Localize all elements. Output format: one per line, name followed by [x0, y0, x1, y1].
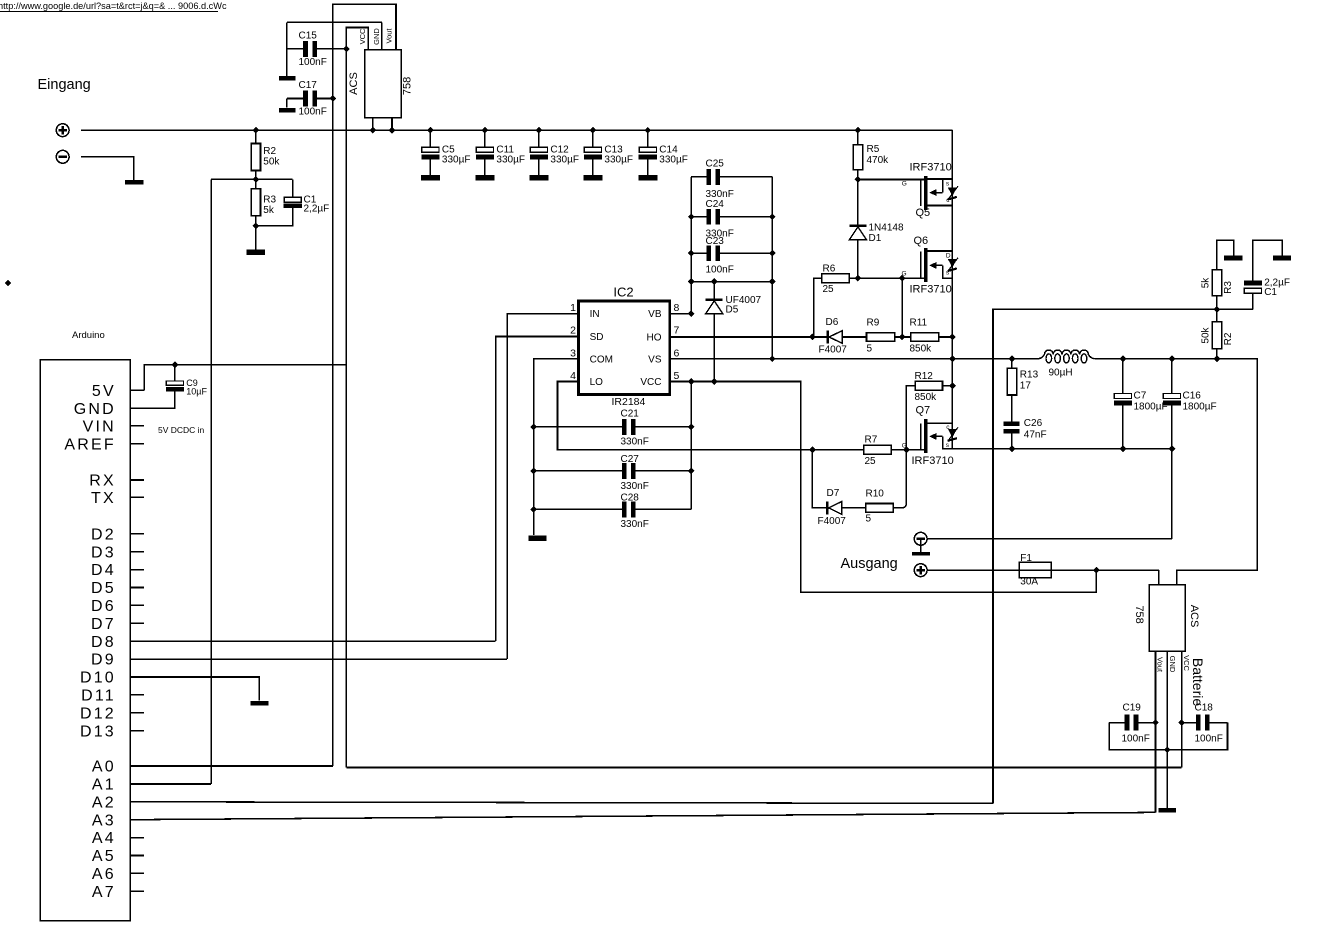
svg-text:100nF: 100nF: [1195, 734, 1223, 745]
svg-text:330µF: 330µF: [550, 155, 579, 166]
svg-text:100nF: 100nF: [299, 57, 327, 68]
svg-text:D1: D1: [869, 233, 882, 244]
junction F1/VCC riser: [1093, 567, 1100, 574]
wire: Vout column to A3: [1155, 651, 1157, 812]
ground C13: [583, 175, 602, 181]
svg-text:C15: C15: [299, 31, 318, 42]
svg-text:Arduino: Arduino: [72, 330, 105, 341]
svg-text:D8: D8: [91, 634, 116, 651]
svg-text:RX: RX: [89, 473, 116, 490]
svg-text:8: 8: [674, 302, 680, 314]
svg-text:Vout: Vout: [384, 28, 393, 44]
svg-text:330µF: 330µF: [496, 155, 525, 166]
svg-text:F1: F1: [1020, 553, 1032, 564]
junction LO/D7: [809, 446, 816, 453]
svg-text:R7: R7: [865, 435, 878, 446]
junction 5V/C9: [172, 361, 179, 368]
capacitor C11 330uF: [484, 130, 486, 147]
capacitor C14 330uF: [647, 130, 649, 147]
wire: ACS bottom pins to rail: [372, 118, 374, 131]
svg-text:R11: R11: [910, 318, 928, 329]
svg-text:4: 4: [570, 370, 576, 382]
capacitor C1 2,2uF (output divider): [1244, 281, 1262, 286]
svg-text:A7: A7: [92, 884, 116, 901]
resistor R7 25: [864, 445, 891, 454]
junction GND/caps: [1164, 746, 1171, 753]
svg-text:1: 1: [570, 302, 576, 314]
svg-text:COM: COM: [590, 354, 613, 365]
svg-text:C25: C25: [706, 159, 725, 170]
svg-text:R6: R6: [823, 264, 836, 275]
ground R3 output: [1224, 256, 1242, 261]
svg-text:90µH: 90µH: [1049, 368, 1073, 379]
wire: VS row to output filter: [670, 358, 1038, 360]
capacitor C24 330nF: [691, 216, 707, 218]
svg-text:SD: SD: [590, 332, 604, 343]
svg-text:850k: 850k: [915, 392, 938, 403]
ground output terminal: [920, 540, 922, 553]
svg-text:GND: GND: [372, 28, 381, 45]
diode D6 F4007: [826, 331, 829, 344]
svg-text:25: 25: [823, 284, 835, 295]
resistor R2 50k (output divider): [1214, 355, 1221, 362]
wire: COM to ground column: [534, 359, 579, 535]
ground D10: [251, 701, 269, 706]
diode D1 1N4148: [857, 180, 859, 226]
svg-text:D6: D6: [91, 598, 116, 615]
svg-text:IRF3710: IRF3710: [912, 455, 954, 467]
svg-text:R10: R10: [866, 489, 885, 500]
wire: divider sense down to A1: [210, 179, 212, 784]
svg-text:25: 25: [865, 456, 877, 467]
wire: SD to D8: [496, 337, 579, 642]
wire: bootstrap stack left column (VB): [690, 177, 692, 314]
svg-text:VCC: VCC: [640, 377, 661, 388]
capacitor C26 47nF: [1004, 422, 1020, 426]
svg-text:330µF: 330µF: [604, 155, 633, 166]
resistor R12 850k: [906, 386, 915, 450]
svg-text:LO: LO: [590, 377, 604, 388]
svg-text:G: G: [902, 181, 907, 188]
wire: output minus row: [928, 538, 1172, 540]
svg-text:Ausgang: Ausgang: [841, 556, 898, 572]
resistor R11 850k: [911, 333, 939, 342]
ground input minus: [125, 180, 143, 185]
svg-text:HO: HO: [647, 332, 662, 343]
IC ACS758 current sensor (input): [365, 50, 401, 118]
svg-text:5: 5: [674, 370, 680, 382]
svg-text:Eingang: Eingang: [38, 77, 91, 93]
wire: pgnd down to output minus: [1171, 449, 1173, 539]
svg-text:330µF: 330µF: [659, 155, 688, 166]
svg-text:47nF: 47nF: [1024, 430, 1047, 441]
resistor R13 17: [1011, 359, 1013, 369]
svg-text:D2: D2: [91, 526, 116, 543]
node: input - terminal: [56, 150, 69, 163]
junction rail/C5: [427, 127, 434, 134]
svg-text:Q7: Q7: [916, 405, 931, 417]
svg-text:C24: C24: [706, 199, 725, 210]
svg-text:1800µF: 1800µF: [1183, 402, 1217, 413]
capacitor C17 100nF: [287, 98, 304, 100]
wire: R3 top to ground: [1217, 240, 1234, 269]
wire: +input rail: [81, 129, 952, 131]
svg-text:100nF: 100nF: [706, 265, 734, 276]
wire: bootstrap stack right column (VS): [771, 177, 773, 359]
capacitor C28 330nF: [534, 508, 624, 510]
svg-text:R2: R2: [1223, 332, 1234, 345]
resistor R10 5: [866, 504, 894, 513]
svg-text:D9: D9: [91, 652, 116, 669]
capacitor C25 330nF: [691, 176, 707, 178]
svg-text:10µF: 10µF: [186, 387, 207, 397]
svg-text:Vout: Vout: [1155, 657, 1164, 673]
diode D7 F4007: [812, 450, 827, 508]
svg-text:100nF: 100nF: [299, 107, 327, 118]
svg-text:D10: D10: [80, 670, 116, 687]
svg-text:5V DCDC in: 5V DCDC in: [158, 425, 205, 435]
svg-text:C16: C16: [1183, 391, 1202, 402]
svg-text:IC2: IC2: [613, 285, 633, 300]
node: R3 bottom junction: [252, 223, 259, 230]
capacitor C16 1800uF: [1171, 359, 1173, 394]
node: input divider midpoint: [252, 176, 259, 183]
svg-text:D11: D11: [81, 688, 116, 705]
svg-text:C28: C28: [621, 493, 640, 504]
wire: GND column: [1166, 651, 1168, 808]
svg-text:330µF: 330µF: [442, 155, 471, 166]
capacitor C1 2,2uF (input divider): [292, 179, 294, 197]
wire: VCC column: [1181, 651, 1183, 767]
svg-text:R3: R3: [263, 195, 276, 206]
capacitor C5 330uF: [429, 130, 431, 147]
svg-text:850k: 850k: [910, 344, 933, 355]
wire: 5V pin to VCC column: [144, 365, 346, 391]
resistor R5 470k: [857, 130, 859, 145]
svg-text:VIN: VIN: [83, 418, 116, 435]
inductor 90uH: [1038, 350, 1095, 359]
resistor R9 5: [867, 333, 895, 342]
junction C17/Vout loop: [330, 95, 337, 102]
wire: A3 row: [130, 812, 1156, 819]
svg-text:D7: D7: [91, 616, 116, 633]
svg-text:GND: GND: [1168, 656, 1177, 673]
svg-text:D12: D12: [80, 705, 116, 722]
junction VS/R13: [1009, 355, 1016, 362]
wire: VCC cap column: [690, 382, 692, 510]
svg-text:5: 5: [867, 344, 873, 355]
svg-text:C7: C7: [1134, 391, 1147, 402]
wire: feedback row to A2 column: [993, 309, 1253, 803]
svg-text:VB: VB: [648, 309, 662, 320]
svg-text:50k: 50k: [263, 157, 280, 168]
svg-text:R2: R2: [263, 146, 276, 157]
svg-text:30A: 30A: [1020, 577, 1038, 588]
junction rail/C14: [644, 127, 651, 134]
ground C17: [279, 108, 296, 113]
svg-text:Q5: Q5: [916, 207, 931, 219]
svg-text:GND: GND: [74, 401, 116, 418]
junction rail/C13: [590, 127, 597, 134]
junction rail/R5: [855, 127, 862, 134]
svg-text:R12: R12: [915, 371, 934, 382]
svg-text:3: 3: [570, 348, 576, 360]
wire: D8 row: [130, 640, 496, 642]
svg-text:IRF3710: IRF3710: [910, 162, 952, 174]
svg-text:ACS: ACS: [1188, 605, 1200, 628]
svg-text:IRF3710: IRF3710: [910, 284, 952, 296]
capacitor C13 330uF: [592, 130, 594, 147]
ground C12: [529, 175, 548, 181]
capacitor C15 100nF: [287, 48, 304, 50]
resistor R2 50k (input divider): [255, 130, 257, 143]
junction rail/R2: [252, 127, 259, 134]
resistor R3 5k (input divider): [251, 189, 260, 216]
svg-text:G: G: [902, 271, 907, 278]
node: Q5 gate node: [855, 176, 862, 183]
wire: gate row Q6: [858, 277, 924, 279]
ground C5: [421, 175, 440, 181]
ground C11: [475, 175, 494, 181]
ground C15: [279, 76, 296, 81]
svg-text:2,2µF: 2,2µF: [304, 204, 330, 215]
svg-text:A6: A6: [92, 866, 116, 883]
node: Q6 gate node: [855, 275, 862, 282]
capacitor C19 100nF: [1109, 722, 1124, 724]
svg-text:C17: C17: [299, 80, 318, 91]
junction rail/C12: [536, 127, 543, 134]
capacitor C23 100nF: [691, 252, 707, 254]
svg-text:758: 758: [1133, 605, 1145, 623]
svg-text:IR2184: IR2184: [612, 396, 646, 408]
wire: R10 up to Q7 gate: [893, 450, 906, 508]
svg-text:758: 758: [402, 77, 414, 95]
wire: A1 row: [130, 783, 211, 785]
wire: ACS Vout loop to A0: [333, 4, 396, 766]
svg-text:R3: R3: [1223, 281, 1234, 294]
ground C14: [638, 175, 657, 181]
svg-text:5: 5: [866, 514, 872, 525]
svg-text:470k: 470k: [867, 155, 890, 166]
capacitor C7 1800uF: [1122, 359, 1124, 394]
svg-text:D5: D5: [726, 305, 739, 316]
svg-text:A0: A0: [92, 759, 116, 776]
capacitor C21 330nF: [534, 426, 624, 428]
svg-text:50k: 50k: [1201, 326, 1212, 343]
node: output + terminal: [914, 564, 927, 577]
ground battery ACS: [1159, 808, 1177, 812]
wire: 5V distribution row: [346, 767, 1181, 769]
node: output divider midpoint: [1214, 306, 1221, 313]
svg-text:VCC: VCC: [358, 28, 367, 44]
svg-text:R9: R9: [867, 318, 880, 329]
svg-text:330nF: 330nF: [621, 519, 649, 530]
svg-text:A1: A1: [92, 777, 116, 794]
wire: Q6 gate tee down: [901, 278, 903, 337]
capacitor C27 330nF: [534, 470, 624, 472]
wire: IN to D9: [507, 314, 578, 659]
svg-text:TX: TX: [91, 490, 116, 507]
svg-text:C19: C19: [1123, 703, 1142, 714]
ground COM: [529, 535, 547, 540]
svg-text:IN: IN: [590, 309, 600, 320]
svg-text:5k: 5k: [263, 205, 275, 216]
svg-text:330nF: 330nF: [621, 437, 649, 448]
wire: HO row: [670, 336, 827, 338]
resistor R3 5k (output divider): [1212, 270, 1221, 296]
svg-text:D4: D4: [91, 562, 116, 579]
svg-text:C21: C21: [621, 409, 640, 420]
svg-text:C27: C27: [621, 454, 640, 465]
wire: A2 row: [130, 802, 993, 804]
wire: rail Q6 source to VS: [948, 259, 957, 268]
svg-text:100nF: 100nF: [1122, 734, 1150, 745]
svg-text:7: 7: [674, 325, 680, 337]
svg-text:A4: A4: [92, 830, 116, 847]
wire: ACS VCC / 5V column: [346, 28, 368, 768]
resistor R6 25: [814, 278, 822, 337]
wire: stack bottom row to D5: [691, 281, 772, 283]
junction rail/C11: [482, 127, 489, 134]
svg-text:F4007: F4007: [819, 345, 848, 356]
wire: power ground row: [943, 448, 1172, 450]
ground C1 output: [1273, 256, 1291, 261]
wire: rail through Q5: [948, 188, 957, 197]
fuse F1 30A: [1019, 562, 1051, 578]
capacitor C12 330uF: [538, 130, 540, 147]
node: input + terminal: [56, 124, 69, 137]
svg-text:D7: D7: [827, 488, 840, 499]
ground input divider: [247, 250, 266, 255]
node: Q7 gate junction: [903, 446, 910, 453]
svg-text:ACS: ACS: [348, 72, 360, 95]
svg-text:D3: D3: [91, 544, 116, 561]
wire: R3 to ground: [255, 226, 257, 250]
svg-text:D13: D13: [80, 723, 116, 740]
wire: input minus to ground: [81, 157, 134, 180]
wire: divider midpoint row: [211, 178, 293, 180]
node: output - terminal: [914, 532, 927, 545]
svg-text:F4007: F4007: [818, 516, 847, 527]
capacitor C18 100nF: [1182, 722, 1196, 724]
capacitor C9 10uF: [174, 365, 176, 381]
IC ACS758 current sensor (battery): [1149, 585, 1185, 652]
svg-text:Batterie: Batterie: [1190, 658, 1206, 706]
svg-text:R5: R5: [867, 144, 880, 155]
svg-text:C26: C26: [1024, 418, 1043, 429]
svg-text:C23: C23: [706, 236, 725, 247]
wire: VCC row: [670, 382, 1097, 593]
wire: VB pin to stack: [670, 313, 691, 315]
svg-text:R13: R13: [1020, 370, 1039, 381]
wire: LO to gate row: [558, 382, 925, 450]
svg-text:5k: 5k: [1201, 277, 1212, 289]
svg-text:C1: C1: [1264, 287, 1277, 298]
svg-text:17: 17: [1020, 381, 1032, 392]
svg-text:D5: D5: [91, 580, 116, 597]
junction HO/D6: [809, 334, 816, 341]
svg-text:D6: D6: [826, 317, 839, 328]
svg-text:http://www.google.de/url?sa=t&: http://www.google.de/url?sa=t&rct=j&q=& …: [0, 1, 227, 11]
svg-text:1800µF: 1800µF: [1134, 402, 1168, 413]
junction rail/ACS pin a: [370, 127, 377, 134]
node: stray mark: [5, 280, 11, 286]
wire: gate row Q5: [858, 179, 924, 181]
wire: output plus to fuse: [928, 569, 1159, 571]
junction rail/ACS pin b: [389, 127, 396, 134]
svg-text:A5: A5: [92, 848, 116, 865]
svg-text:A2: A2: [92, 794, 116, 811]
svg-text:VCC: VCC: [1182, 655, 1191, 671]
svg-text:VS: VS: [648, 354, 662, 365]
diode D5 UF4007: [713, 282, 715, 299]
svg-text:C18: C18: [1195, 703, 1214, 714]
wire: A0 row: [130, 765, 333, 767]
wire: to battery ACS pin: [1158, 570, 1160, 585]
svg-text:AREF: AREF: [64, 436, 115, 453]
op-amp U1: IC2 IR2184 gate driver: [578, 301, 669, 395]
svg-text:5V: 5V: [92, 383, 116, 400]
svg-text:D: D: [946, 252, 951, 259]
svg-text:A3: A3: [92, 812, 116, 829]
svg-text:1N4148: 1N4148: [869, 223, 904, 234]
svg-text:2: 2: [570, 325, 576, 337]
wire: ACS GND line: [286, 22, 288, 76]
svg-text:Q6: Q6: [914, 235, 929, 247]
wire: D10 to ground: [130, 677, 259, 701]
svg-text:6: 6: [674, 348, 680, 360]
junction C15/VCC: [343, 46, 350, 53]
wire: D9 row: [130, 658, 507, 660]
svg-text:330nF: 330nF: [621, 481, 649, 492]
